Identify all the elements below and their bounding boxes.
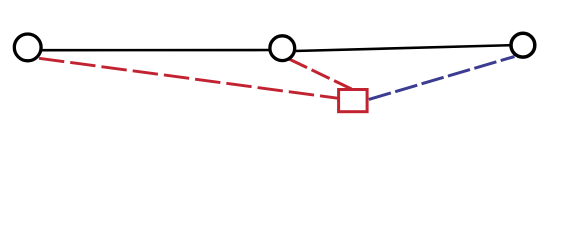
node S1 (red square) [339,90,368,112]
edge S1-V3 (blue dashed) [369,57,515,100]
wire edge V2-V3 (solid black) [295,45,511,51]
node V2 (middle circle) [270,36,295,61]
node V1 (left circle) [14,34,41,61]
edge V2-S1 (red dashed) [289,59,352,89]
edge V1-S1 (red dashed) [39,58,338,98]
wire edge V1-V2 (solid black) [40,49,271,52]
node V3 (right circle) [511,33,535,57]
